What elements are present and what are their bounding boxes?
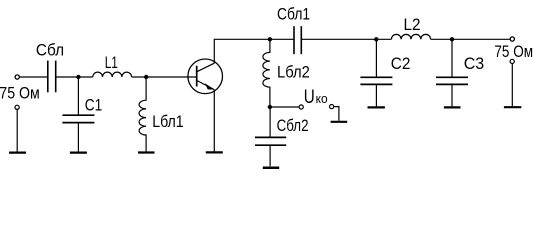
svg-text:Сбл: Сбл <box>36 41 64 60</box>
node junction J1 <box>76 75 80 79</box>
inductor L2 <box>391 34 430 39</box>
svg-text:C3: C3 <box>464 54 485 73</box>
capacitor Сбл1 <box>294 26 301 54</box>
svg-text:Lбл1: Lбл1 <box>152 112 184 131</box>
terminal (output ground) <box>510 59 514 63</box>
inductor L1 <box>93 72 132 77</box>
wire <box>511 64 513 107</box>
input terminal <box>15 75 19 79</box>
capacitor C2 <box>360 39 392 106</box>
output terminal <box>510 37 514 41</box>
svg-text:ко: ко <box>316 91 328 106</box>
svg-text:Сбл1: Сбл1 <box>277 5 310 24</box>
wire <box>270 106 299 108</box>
node junction J6 <box>450 37 454 41</box>
capacitor Сбл <box>48 61 56 93</box>
ground (output) <box>504 106 521 108</box>
capacitor C3 <box>436 39 468 106</box>
node junction J4 <box>268 105 272 109</box>
svg-text:L1: L1 <box>105 53 118 72</box>
ground (C1) <box>70 152 87 154</box>
svg-text:C1: C1 <box>85 95 103 114</box>
wire <box>16 109 18 151</box>
wire <box>431 38 511 40</box>
node junction J2 <box>144 75 148 79</box>
wire <box>20 76 48 78</box>
svg-text:75 Ом: 75 Ом <box>0 83 40 102</box>
svg-text:L2: L2 <box>404 15 421 34</box>
ground (Сбл2) <box>263 167 279 170</box>
ground (Uко) <box>331 121 348 123</box>
capacitor Сбл2 <box>255 107 286 166</box>
capacitor C1 <box>62 77 94 152</box>
svg-text:C2: C2 <box>391 54 411 73</box>
ground (input) <box>9 152 26 154</box>
ground (C3) <box>444 106 461 108</box>
svg-text:Сбл2: Сбл2 <box>277 116 309 135</box>
ground (C2) <box>368 106 385 108</box>
ground (emitter) <box>206 151 223 153</box>
terminal (input ground) <box>15 105 19 109</box>
wire <box>301 38 391 40</box>
wire (collector up) <box>214 39 294 63</box>
wire (emitter down) <box>213 90 215 152</box>
node junction J3 <box>268 37 272 41</box>
terminal Uко + <box>299 105 303 109</box>
svg-text:Lбл2: Lбл2 <box>277 63 310 82</box>
svg-text:75 Ом: 75 Ом <box>494 42 533 61</box>
terminal Uко - <box>330 105 334 109</box>
node junction J5 <box>374 37 378 41</box>
wire <box>334 107 339 121</box>
transistor VT (npn) <box>188 59 223 94</box>
inductor Lбл2 <box>263 39 270 107</box>
svg-text:U: U <box>304 87 315 108</box>
wire <box>132 76 197 78</box>
ground (Lбл1) <box>138 151 155 153</box>
wire <box>56 76 93 78</box>
inductor Lбл1 <box>139 77 146 151</box>
